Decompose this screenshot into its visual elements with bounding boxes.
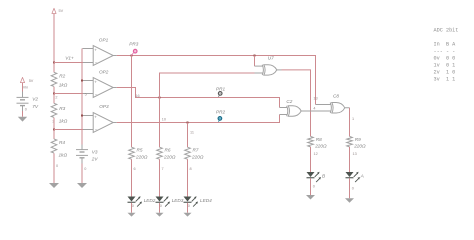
resistor R3 — [51, 103, 57, 117]
wire LED B to ground — [310, 178, 312, 195]
wire 5V to ladder — [53, 14, 55, 63]
svg-text:5V: 5V — [29, 79, 34, 83]
power connector 5V — [52, 8, 56, 13]
svg-text:−: − — [95, 60, 98, 65]
pin V2 plus — [22, 92, 24, 98]
svg-text:7V: 7V — [32, 104, 39, 109]
gate C8 (XOR) — [330, 103, 345, 114]
svg-text:1kΩ: 1kΩ — [59, 153, 68, 158]
svg-text:−: − — [95, 92, 98, 97]
svg-text:0: 0 — [84, 167, 86, 171]
svg-text:R5: R5 — [137, 147, 143, 152]
svg-text:3v 1 1: 3v 1 1 — [434, 76, 456, 82]
pin V2 minus — [22, 106, 24, 111]
junction OP1/PR3 — [131, 55, 133, 57]
svg-text:LED4: LED4 — [200, 198, 212, 203]
svg-text:PR1: PR1 — [216, 87, 226, 92]
svg-text:PR2: PR2 — [216, 110, 226, 115]
svg-text:−: − — [95, 127, 98, 132]
pin OP1 minus — [83, 62, 93, 64]
probe PR2 — [218, 117, 222, 122]
svg-text:0: 0 — [313, 184, 315, 188]
svg-text:Vin: Vin — [23, 85, 28, 89]
ground below LED A — [345, 198, 354, 203]
svg-text:0: 0 — [56, 164, 58, 168]
resistor R7 — [185, 147, 191, 159]
svg-text:C2: C2 — [286, 99, 292, 104]
wire LED4 to ground — [187, 203, 189, 213]
wire R4 to ground — [53, 153, 55, 183]
gate C2 (XOR) — [287, 106, 302, 116]
wire LED2 to ground — [131, 203, 133, 213]
pin OP3 output — [113, 122, 117, 124]
junction OP3/R7 — [187, 122, 189, 124]
wire node3 to R4 — [53, 130, 55, 140]
resistor R2 — [51, 72, 57, 86]
svg-text:U7: U7 — [268, 56, 274, 61]
probe PR1 — [218, 92, 222, 97]
wire net16 down to R6 — [159, 98, 161, 148]
LED B — [307, 172, 322, 182]
svg-text:10: 10 — [162, 117, 166, 121]
svg-text:220Ω: 220Ω — [191, 155, 204, 160]
svg-text:C8: C8 — [333, 94, 339, 99]
pin C8 output — [345, 107, 350, 109]
svg-text:LED3: LED3 — [172, 198, 184, 203]
wire C8 output to R9 — [349, 108, 351, 137]
node 3 — [53, 129, 55, 131]
svg-text:6: 6 — [134, 167, 136, 171]
svg-text:R9: R9 — [355, 137, 361, 142]
svg-text:R6: R6 — [165, 147, 171, 152]
svg-text:PR3: PR3 — [129, 41, 139, 46]
svg-text:11: 11 — [190, 130, 194, 134]
probe PR3 — [132, 49, 138, 55]
LED LED2 — [128, 196, 143, 206]
svg-text:V1+: V1+ — [65, 55, 74, 60]
pin V3 minus — [81, 158, 83, 164]
wire V1+ to R2 — [53, 63, 55, 73]
wire net16 up to U7 — [160, 73, 255, 98]
svg-text:0: 0 — [160, 204, 162, 208]
svg-text:+: + — [94, 114, 97, 119]
pin U7 lower input — [255, 72, 264, 74]
svg-text:220Ω: 220Ω — [314, 143, 327, 148]
op-amp OP3 — [93, 113, 113, 133]
wire Vin bus — [81, 49, 83, 145]
svg-text:B: B — [322, 174, 325, 179]
wire V3 to ground — [81, 164, 83, 184]
pin U7 output — [277, 69, 282, 71]
ground below LED2 — [128, 213, 136, 217]
svg-text:0: 0 — [25, 107, 27, 111]
svg-text:0v 0 0: 0v 0 0 — [434, 55, 456, 61]
svg-text:16: 16 — [135, 94, 139, 98]
node 2 — [53, 93, 55, 95]
svg-text:8: 8 — [190, 167, 192, 171]
pin C8 upper input — [316, 104, 331, 106]
svg-text:220Ω: 220Ω — [353, 143, 366, 148]
pin OP3 minus — [83, 129, 93, 131]
ground below LED3 — [156, 213, 164, 217]
pin OP2 output — [113, 87, 117, 89]
svg-text:7: 7 — [162, 167, 164, 171]
svg-text:R7: R7 — [193, 147, 199, 152]
svg-text:R2: R2 — [59, 73, 65, 78]
svg-text:0: 0 — [132, 204, 134, 208]
svg-text:+: + — [94, 79, 97, 84]
LED LED4 — [184, 196, 199, 206]
ground below R4 — [49, 183, 59, 188]
svg-text:R3: R3 — [59, 106, 65, 111]
wire node2 to R3 — [53, 94, 55, 104]
wire R7 to LED4 — [187, 159, 189, 196]
wire Vin arrow down — [22, 83, 24, 92]
wire LED A to ground — [349, 178, 351, 198]
svg-text:ADC 2bit: ADC 2bit — [434, 27, 459, 33]
svg-text:1: 1 — [352, 117, 354, 121]
wire PR3 branch down — [131, 56, 133, 148]
pin OP3 plus — [83, 115, 93, 117]
svg-text:+: + — [94, 47, 97, 52]
wire R6 to LED3 — [159, 159, 161, 196]
svg-text:OP2: OP2 — [99, 69, 109, 74]
wire node2 to OP2 minus — [54, 93, 83, 95]
svg-text:--- - -: --- - - — [434, 48, 456, 54]
junction bus OP3 plus — [81, 115, 83, 117]
ground below V3 — [77, 183, 87, 188]
wire R5 to LED2 — [131, 159, 133, 196]
resistor R6 — [157, 147, 163, 159]
svg-text:LED2: LED2 — [144, 198, 156, 203]
pin C2 lower input — [280, 114, 288, 116]
voltage source V3 — [76, 150, 88, 158]
wire V2 to ground — [22, 111, 24, 117]
svg-text:1kΩ: 1kΩ — [59, 118, 68, 123]
wire node V1+ to OP1 minus — [54, 62, 83, 64]
op-amp OP1 — [93, 46, 113, 66]
annotation table ADC 2bit — [434, 27, 459, 82]
ground below LED B — [306, 195, 315, 200]
svg-text:V3: V3 — [92, 149, 98, 154]
svg-text:1kΩ: 1kΩ — [59, 83, 68, 88]
ground below LED4 — [184, 213, 192, 217]
svg-text:V2: V2 — [32, 96, 38, 101]
pin OP1 output — [113, 55, 117, 57]
wire OP3 output row — [117, 115, 280, 123]
pin C2 upper input — [280, 107, 288, 109]
junction bus OP2 plus — [81, 80, 83, 82]
gate U7 (XOR) — [262, 65, 277, 75]
pin U7 upper input — [255, 65, 264, 67]
wire R3 to node 3 — [53, 118, 55, 130]
pin OP1 plus — [83, 48, 94, 50]
wire C2 output to C8 — [301, 110, 331, 112]
resistor R9 — [347, 136, 353, 146]
junction net16 tee — [159, 97, 161, 99]
resistor R4 — [51, 139, 57, 153]
voltage source V2 — [17, 97, 29, 105]
LED A — [346, 172, 361, 182]
op-amp OP2 — [93, 78, 113, 98]
svg-text:2v 1 0: 2v 1 0 — [434, 69, 456, 75]
wire R9 to LED A — [349, 147, 351, 172]
pin OP2 plus — [83, 80, 93, 82]
power connector Vin — [20, 77, 24, 82]
pin OP2 minus — [83, 93, 93, 95]
svg-text:In B A: In B A — [434, 41, 457, 47]
svg-text:1v 0 1: 1v 0 1 — [434, 62, 456, 68]
wire OP1 output row — [117, 56, 316, 105]
resistor R5 — [129, 147, 135, 159]
svg-text:12: 12 — [314, 152, 318, 156]
svg-text:13: 13 — [353, 152, 357, 156]
LED LED3 — [156, 196, 171, 206]
svg-text:220Ω: 220Ω — [135, 155, 148, 160]
svg-text:5: 5 — [85, 92, 87, 96]
wire U7 output to R8 — [282, 70, 311, 136]
wire R8 to LED B — [310, 147, 312, 172]
wire OP2 output row — [117, 88, 280, 108]
svg-text:R8: R8 — [316, 137, 322, 142]
svg-text:220Ω: 220Ω — [163, 155, 176, 160]
node V1+ junction — [53, 62, 55, 64]
wire node3 to OP3 minus — [54, 129, 83, 131]
svg-text:4: 4 — [313, 107, 315, 111]
wire net10 down to R7 — [187, 123, 189, 148]
svg-text:A: A — [360, 174, 364, 179]
pin V3 plus — [81, 145, 83, 150]
wire LED3 to ground — [159, 203, 161, 213]
wire R2 to node 2 — [53, 87, 55, 94]
svg-text:OP3: OP3 — [99, 104, 109, 109]
wire U7 upper branch — [254, 56, 256, 67]
junction OP1/U7 — [254, 55, 256, 57]
svg-text:2: 2 — [55, 95, 57, 99]
svg-text:0: 0 — [188, 204, 190, 208]
resistor R8 — [308, 136, 314, 146]
svg-text:5V: 5V — [59, 9, 64, 13]
svg-text:2V: 2V — [91, 157, 99, 162]
svg-text:R4: R4 — [59, 140, 65, 145]
ground below V2 — [18, 117, 27, 122]
svg-text:OP1: OP1 — [99, 37, 109, 42]
svg-text:13: 13 — [313, 96, 317, 100]
svg-text:0: 0 — [352, 186, 354, 190]
